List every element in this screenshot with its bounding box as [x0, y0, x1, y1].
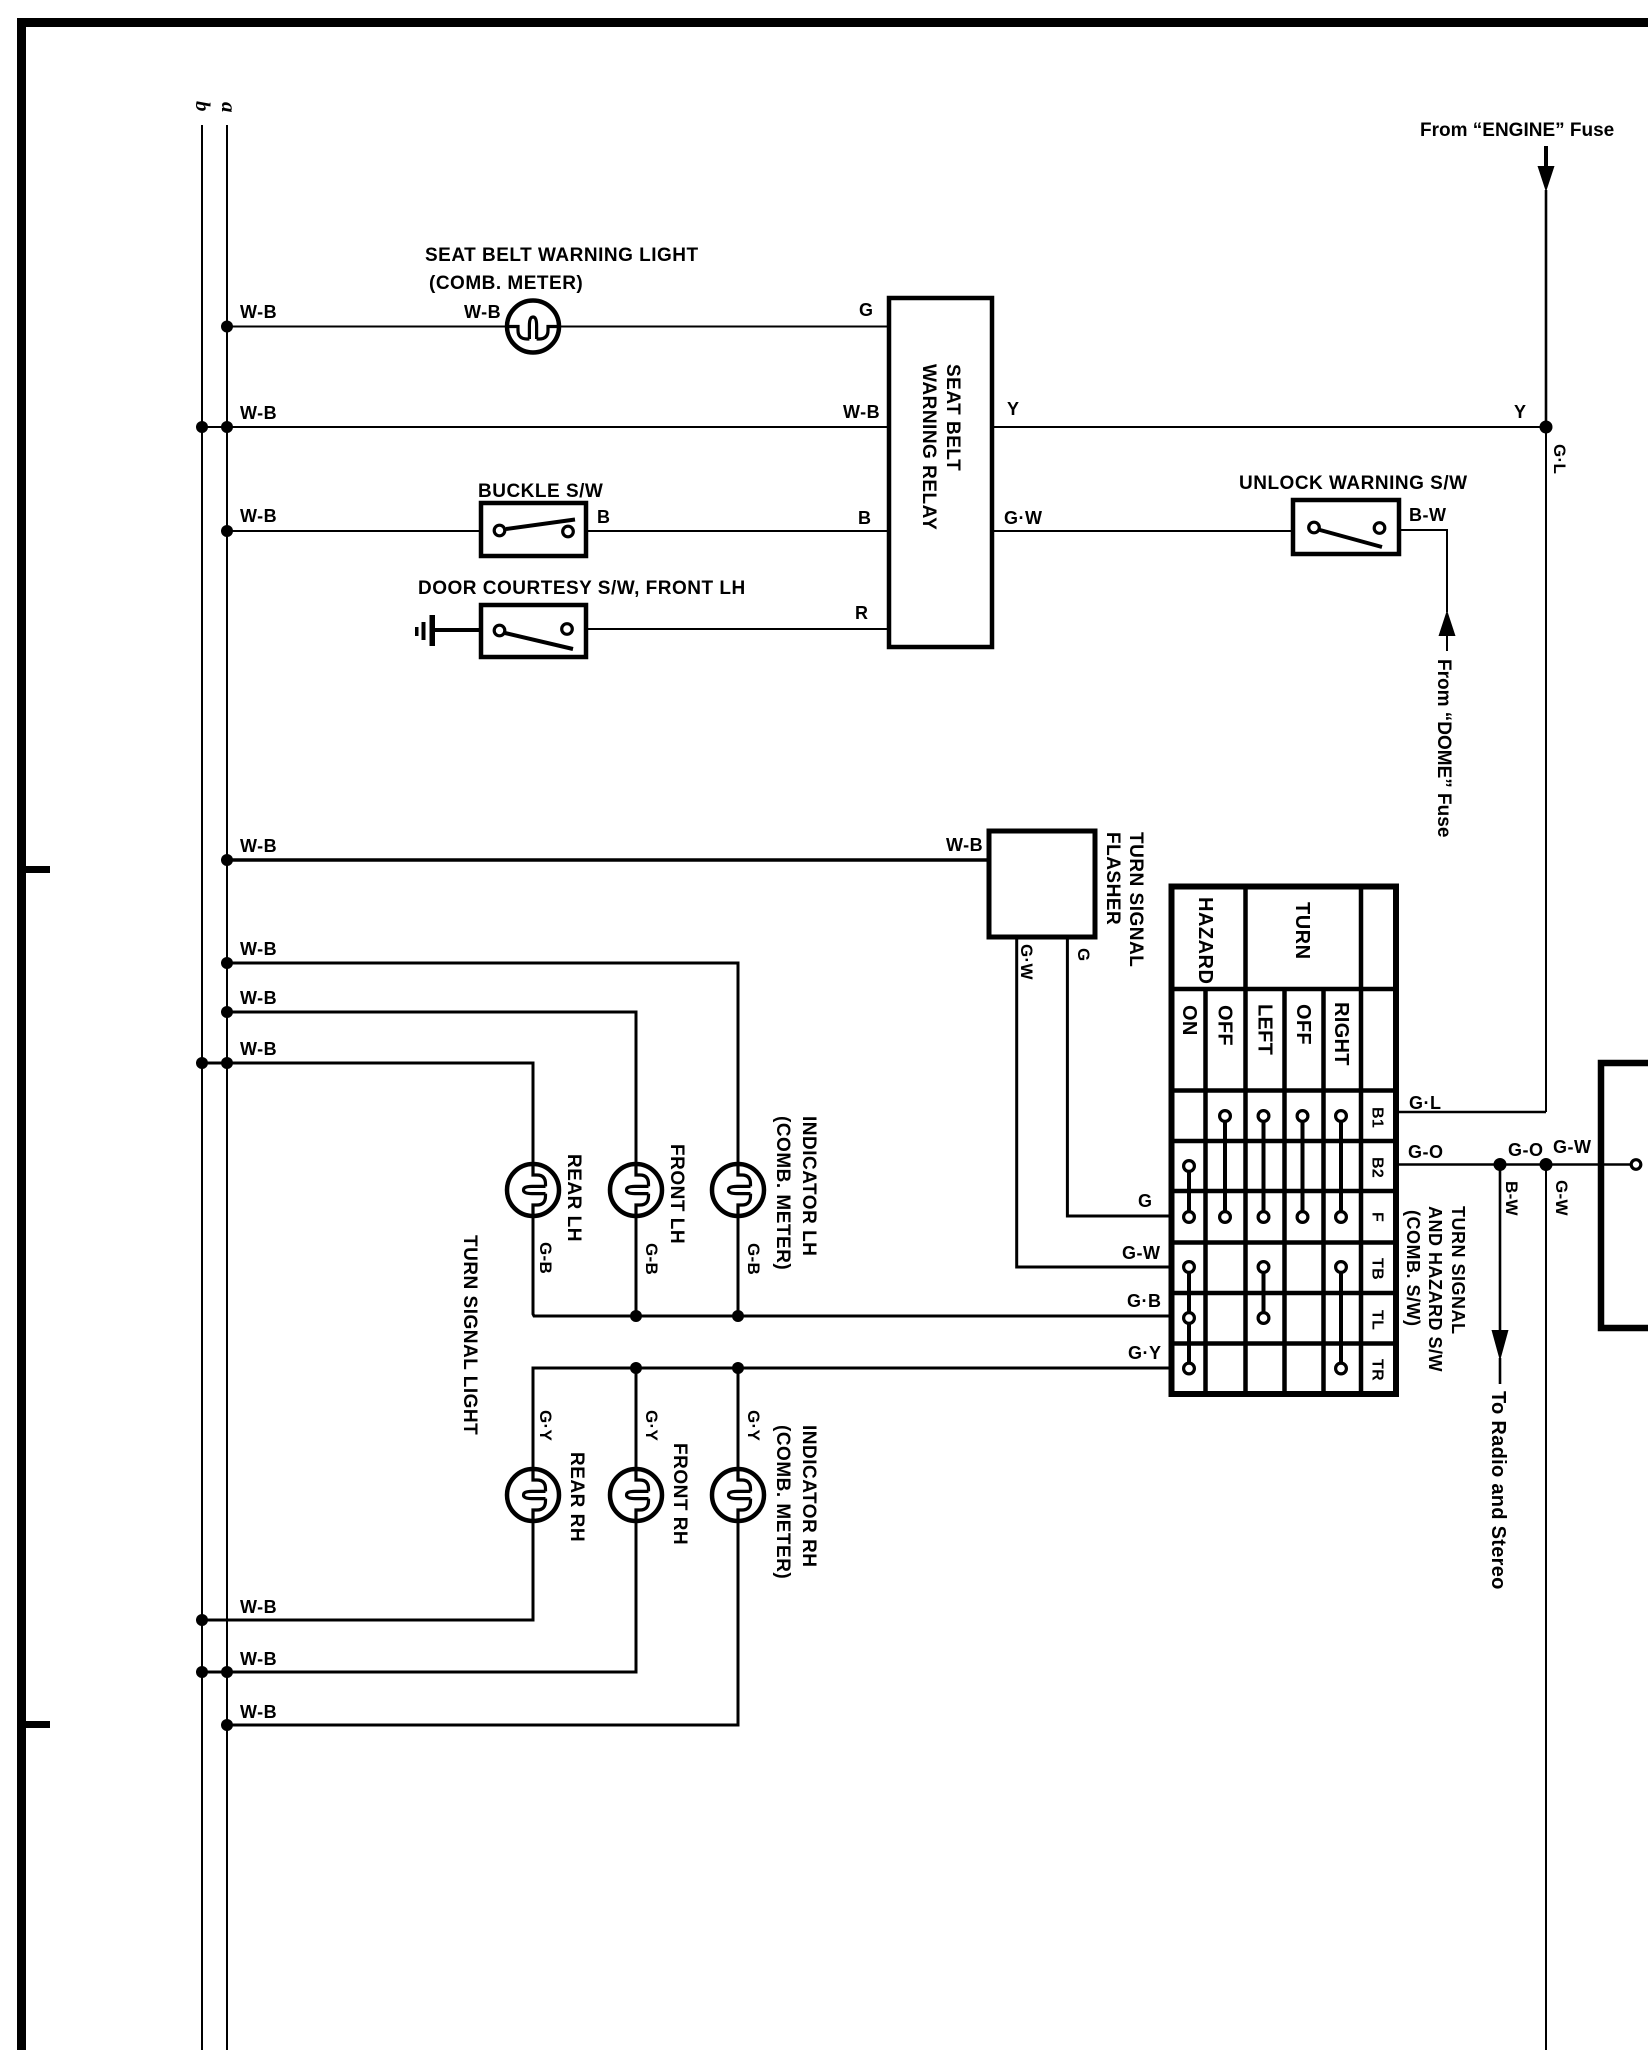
switch table contacts	[1220, 1111, 1231, 1122]
svg-text:TURN SIGNAL LIGHT: TURN SIGNAL LIGHT	[459, 1235, 480, 1435]
wire G flasher to switch table	[1067, 937, 1172, 1216]
svg-text:OFF: OFF	[1214, 1005, 1236, 1046]
lamp turn signal front RH	[610, 1469, 662, 1521]
svg-text:INDICATOR LH: INDICATOR LH	[798, 1116, 819, 1256]
wire W-B rail a to buckle switch	[227, 530, 481, 532]
svg-text:W-B: W-B	[240, 1702, 277, 1722]
border frame left	[17, 18, 26, 2050]
svg-text:TURN SIGNAL: TURN SIGNAL	[1448, 1206, 1468, 1335]
wire W-B rail a to indicator LH	[227, 963, 738, 1164]
svg-text:G·B: G·B	[1127, 1291, 1162, 1311]
svg-text:UNLOCK WARNING S/W: UNLOCK WARNING S/W	[1239, 473, 1468, 494]
svg-text:(COMB. METER): (COMB. METER)	[429, 273, 583, 294]
connector box right edge	[1601, 1063, 1648, 1328]
svg-text:FRONT LH: FRONT LH	[666, 1144, 687, 1244]
terminal circle at right box	[1631, 1160, 1641, 1170]
svg-text:BUCKLE S/W: BUCKLE S/W	[478, 481, 603, 502]
junction rail b	[196, 421, 208, 433]
wire from ENGINE fuse with arrow	[1544, 146, 1548, 170]
wire W-B rails to relay	[202, 426, 889, 428]
svg-text:ON: ON	[1178, 1005, 1200, 1036]
svg-text:G: G	[859, 300, 874, 320]
wire G-O switch table to column (right box)	[1396, 1163, 1630, 1165]
switch unlock warning S/W	[1293, 500, 1399, 554]
junction rail a	[221, 421, 233, 433]
svg-text:G-O: G-O	[1408, 1142, 1444, 1162]
lamp turn signal rear LH	[507, 1164, 559, 1216]
svg-text:G-W: G-W	[1122, 1243, 1160, 1263]
lamp turn signal rear RH	[507, 1469, 559, 1521]
wire W-B rail a to flasher	[227, 858, 989, 862]
lamp turn signal indicator LH (comb. meter)	[712, 1164, 764, 1216]
svg-text:WARNING RELAY: WARNING RELAY	[918, 364, 939, 530]
lamp seat belt warning light (comb. meter)	[507, 301, 559, 353]
svg-text:G-B: G-B	[642, 1243, 661, 1275]
relay box seat belt warning relay	[889, 298, 992, 647]
svg-text:G-W: G-W	[1552, 1180, 1571, 1216]
svg-text:TL: TL	[1369, 1310, 1386, 1330]
wire G-W relay to unlock switch	[992, 530, 1293, 532]
svg-text:W-B: W-B	[240, 403, 277, 423]
svg-text:OFF: OFF	[1292, 1004, 1314, 1045]
svg-text:W-B: W-B	[240, 506, 277, 526]
svg-text:Y: Y	[1514, 402, 1527, 422]
junction rail a / W-B wire	[221, 321, 233, 333]
ground symbol	[430, 615, 436, 646]
svg-text:G·L: G·L	[1550, 444, 1569, 474]
wire W-B rail a to front LH	[227, 1012, 636, 1164]
svg-text:G-W: G-W	[1553, 1137, 1591, 1157]
relay box turn signal flasher	[989, 831, 1095, 937]
svg-text:W-B: W-B	[946, 835, 983, 855]
svg-text:G·Y: G·Y	[536, 1410, 555, 1441]
svg-text:W-B: W-B	[240, 1597, 277, 1617]
wire W-B rails to rear LH	[202, 1063, 533, 1164]
wire G-Y bus RH lamps to switch table	[533, 1368, 1172, 1469]
svg-text:LEFT: LEFT	[1254, 1004, 1276, 1055]
wire rail b vertical	[201, 125, 203, 2050]
wire W-B indicator RH to rail a	[227, 1521, 738, 1725]
switch table contact connectors	[1187, 1166, 1191, 1217]
svg-text:TURN SIGNAL: TURN SIGNAL	[1125, 832, 1146, 967]
svg-text:B-W: B-W	[1502, 1181, 1521, 1217]
svg-text:REAR RH: REAR RH	[566, 1452, 587, 1542]
tick mark left border upper	[26, 866, 50, 873]
lamp turn signal front LH	[610, 1164, 662, 1216]
border frame top	[17, 18, 1648, 27]
wire W-B rear RH to rail b	[202, 1521, 533, 1620]
svg-text:W-B: W-B	[843, 402, 880, 422]
svg-text:INDICATOR RH: INDICATOR RH	[798, 1425, 819, 1568]
junction Y / G-L node	[1540, 421, 1553, 434]
wire G-W down to bottom edge	[1545, 1165, 1547, 2050]
svg-text:FLASHER: FLASHER	[1102, 832, 1123, 925]
svg-text:SEAT BELT WARNING LIGHT: SEAT BELT WARNING LIGHT	[425, 245, 699, 266]
svg-text:REAR LH: REAR LH	[563, 1154, 584, 1242]
svg-text:G·W: G·W	[1017, 944, 1036, 980]
switch door courtesy S/W front LH	[481, 605, 586, 657]
svg-text:a: a	[217, 102, 241, 113]
arrow from DOME fuse (up)	[1439, 610, 1456, 636]
svg-text:b: b	[191, 101, 215, 112]
svg-text:AND HAZARD S/W: AND HAZARD S/W	[1425, 1206, 1445, 1372]
svg-text:W-B: W-B	[240, 302, 277, 322]
wire R door switch to relay	[586, 628, 889, 630]
switch table turn signal and hazard S/W	[1172, 887, 1397, 1395]
svg-text:TB: TB	[1369, 1258, 1386, 1280]
svg-text:B2: B2	[1369, 1157, 1386, 1178]
svg-text:(COMB. S/W): (COMB. S/W)	[1403, 1210, 1423, 1326]
wire rail a vertical	[226, 125, 228, 2050]
svg-text:From “DOME” Fuse: From “DOME” Fuse	[1433, 659, 1454, 837]
wire G-B bus LH lamps to switch table	[533, 1216, 1172, 1316]
svg-text:To Radio and Stereo: To Radio and Stereo	[1487, 1391, 1509, 1590]
svg-text:W-B: W-B	[240, 939, 277, 959]
svg-text:(COMB. METER): (COMB. METER)	[772, 1116, 793, 1270]
svg-text:Y: Y	[1007, 399, 1020, 419]
svg-text:G-B: G-B	[744, 1243, 763, 1275]
svg-text:B-W: B-W	[1409, 505, 1446, 525]
wire B-W unlock switch to DOME fuse	[1399, 530, 1447, 612]
svg-text:R: R	[855, 603, 869, 623]
svg-text:SEAT BELT: SEAT BELT	[942, 364, 963, 471]
tick mark left border lower	[26, 1721, 50, 1728]
svg-text:W-B: W-B	[240, 988, 277, 1008]
svg-text:W-B: W-B	[240, 1039, 277, 1059]
lamp turn signal indicator RH (comb. meter)	[712, 1469, 764, 1521]
wire W-B rail a to bulb	[227, 326, 508, 328]
svg-text:G·Y: G·Y	[1128, 1343, 1162, 1363]
svg-text:DOOR COURTESY S/W, FRONT LH: DOOR COURTESY S/W, FRONT LH	[418, 578, 746, 599]
wire G bulb to relay	[559, 326, 889, 328]
svg-text:B: B	[858, 508, 872, 528]
svg-text:TR: TR	[1369, 1359, 1386, 1381]
wire G-L vertical	[1545, 427, 1547, 1112]
svg-text:G: G	[1138, 1191, 1153, 1211]
svg-text:W-B: W-B	[240, 836, 277, 856]
svg-text:FRONT RH: FRONT RH	[669, 1443, 690, 1545]
svg-text:G·W: G·W	[1004, 508, 1042, 528]
svg-text:G: G	[1074, 948, 1093, 962]
svg-text:From “ENGINE” Fuse: From “ENGINE” Fuse	[1420, 120, 1614, 141]
svg-text:W-B: W-B	[464, 302, 501, 322]
svg-text:G·Y: G·Y	[744, 1410, 763, 1441]
svg-text:B1: B1	[1369, 1107, 1386, 1128]
svg-text:(COMB. METER): (COMB. METER)	[772, 1425, 793, 1579]
svg-text:TURN: TURN	[1291, 902, 1313, 960]
svg-text:G-B: G-B	[536, 1242, 555, 1274]
svg-text:B: B	[597, 507, 611, 527]
svg-text:RIGHT: RIGHT	[1330, 1002, 1352, 1066]
wire G-W flasher to switch table	[1017, 937, 1172, 1267]
svg-text:G-O: G-O	[1508, 1140, 1544, 1160]
svg-text:G·Y: G·Y	[642, 1410, 661, 1441]
svg-text:G·L: G·L	[1409, 1093, 1442, 1113]
wire B-W to radio and stereo with arrow	[1499, 1165, 1502, 1333]
svg-text:HAZARD: HAZARD	[1194, 897, 1216, 984]
wire B buckle to relay	[586, 530, 889, 532]
switch buckle S/W	[481, 503, 586, 556]
svg-text:W-B: W-B	[240, 1649, 277, 1669]
wire G-L switch table to engine fuse line	[1396, 1111, 1546, 1114]
wire Y relay to G-L node	[992, 426, 1546, 428]
svg-text:F: F	[1369, 1212, 1386, 1222]
wire W-B front RH to rails	[202, 1521, 636, 1672]
